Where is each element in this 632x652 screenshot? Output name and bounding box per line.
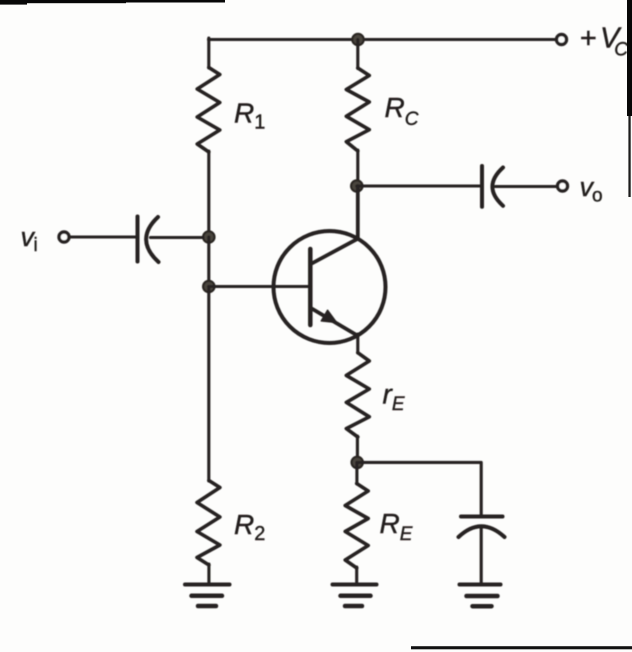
wire: emitter node down to RE	[355, 462, 358, 484]
terminal: +VCC	[557, 35, 567, 45]
wire: RE to ground	[355, 567, 358, 584]
ground under bypass capacitor	[460, 585, 501, 607]
capacitor C-out curved plate	[492, 168, 503, 206]
wire: R1 to input node	[207, 151, 210, 238]
wire: rE to emitter node	[356, 436, 359, 463]
wire: top supply rail	[209, 38, 557, 41]
capacitor CE curved plate	[459, 526, 505, 537]
resistor R1	[197, 68, 220, 153]
transistor Q1 emitter arrow	[321, 310, 336, 322]
node: input junction on divider	[203, 231, 214, 242]
resistor R2	[197, 481, 220, 566]
node: base junction	[203, 281, 214, 292]
capacitor C-in curved plate	[146, 217, 158, 262]
ground under R2	[185, 585, 230, 607]
wire: base from node to transistor	[209, 285, 310, 288]
capacitor C-in straight plate	[136, 217, 140, 262]
wire: vi terminal to input capacitor	[71, 235, 136, 238]
node: emitter junction	[352, 457, 363, 468]
wire: divider segment input node to base node	[207, 237, 210, 287]
wire: R2 to ground	[207, 564, 210, 584]
resistor RE	[345, 484, 368, 569]
resistor RC	[346, 68, 369, 151]
wire: emitter down to rE	[356, 334, 359, 353]
transistor Q1 body circle	[274, 231, 386, 343]
wire: input capacitor to divider node	[151, 236, 204, 239]
wire: output capacitor to vo terminal	[496, 185, 557, 188]
capacitor C-out straight plate	[480, 166, 484, 207]
wire: collector lead from output node into transistor	[311, 186, 358, 264]
capacitor CE top plate	[461, 515, 503, 519]
wire: RC to output node	[356, 150, 359, 186]
wire: divider down to R2	[207, 287, 210, 482]
ground under RE	[333, 585, 377, 607]
terminal: vi input	[59, 232, 69, 242]
wire: rail junction down to RC	[356, 40, 359, 69]
scan artifact bars (decorative)	[0, 0, 27, 5]
wire: bypass capacitor to ground	[480, 528, 483, 584]
node: VCC rail junction	[352, 34, 363, 45]
node: collector/output junction	[351, 180, 362, 191]
terminal: vo output	[558, 181, 568, 191]
wire: output node to output capacitor	[357, 184, 480, 187]
wire: rail corner down to R1	[207, 38, 210, 68]
transistor Q1 emitter lead	[311, 308, 358, 336]
wire: emitter node to bypass capacitor	[357, 462, 481, 514]
resistor rE	[346, 353, 369, 437]
transistor Q1 base bar	[308, 249, 313, 325]
